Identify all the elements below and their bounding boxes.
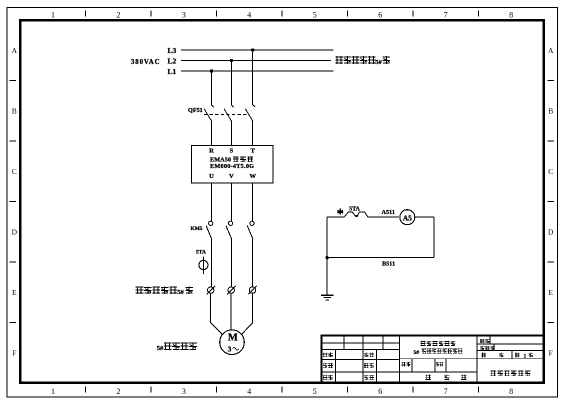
svg-text:QF51: QF51 — [188, 107, 203, 114]
svg-text:6: 6 — [378, 387, 382, 396]
net label: to original system 5# pump (top) — [336, 56, 376, 64]
svg-text:3: 3 — [228, 345, 232, 354]
top margin zone ticks — [86, 11, 479, 17]
svg-text:5: 5 — [313, 387, 317, 396]
wire left side with ground tap — [326, 217, 328, 295]
breaker linkage dashed line — [204, 113, 250, 115]
svg-text:8: 8 — [509, 387, 513, 396]
svg-text:F: F — [12, 348, 16, 357]
wire L1 phase line — [181, 70, 333, 72]
wire drop phase B to breaker — [230, 61, 232, 105]
svg-text:4: 4 — [247, 387, 251, 396]
svg-text:T: T — [251, 148, 256, 155]
svg-text:5#: 5# — [177, 289, 184, 296]
label approve row — [323, 375, 333, 380]
svg-text:6: 6 — [378, 10, 382, 19]
svg-text:1: 1 — [51, 387, 55, 396]
company name — [491, 370, 531, 375]
svg-text:5#: 5# — [157, 345, 164, 352]
net label: to original system 5# pump (bottom) — [136, 286, 177, 294]
node dot L3 tap — [251, 48, 254, 51]
svg-text:L1: L1 — [168, 67, 177, 76]
svg-text:5#: 5# — [414, 350, 420, 356]
left margin zone ticks — [10, 81, 17, 323]
CT secondary winding 5TA — [344, 212, 368, 217]
wire drop phase C to breaker — [252, 50, 254, 105]
svg-text:7: 7 — [444, 10, 448, 19]
wire ammeter to right corner — [415, 216, 434, 218]
circuit breaker QF51 — [204, 105, 255, 145]
title text line 1 — [421, 341, 456, 346]
svg-text:V: V — [229, 173, 234, 180]
bottom margin zone ticks — [86, 387, 479, 393]
motor M1 circle — [220, 330, 245, 355]
svg-text:5#: 5# — [375, 59, 382, 66]
svg-text:L2: L2 — [168, 56, 177, 65]
wire B511 bottom return — [327, 257, 434, 259]
svg-text:S: S — [230, 148, 234, 155]
polarity mark * — [337, 209, 343, 215]
svg-text:D: D — [548, 228, 554, 237]
svg-text:5: 5 — [313, 10, 317, 19]
svg-text:E: E — [12, 288, 17, 297]
junction dot ground node — [326, 256, 329, 259]
node dot L1 tap — [210, 69, 213, 72]
wire drop phase A to breaker — [211, 71, 213, 105]
title block grid — [322, 336, 544, 383]
svg-text:A: A — [548, 46, 554, 55]
svg-text:5TA: 5TA — [196, 250, 206, 256]
label scale — [480, 346, 495, 350]
svg-text:W: W — [249, 173, 256, 180]
svg-text:2: 2 — [117, 10, 121, 19]
svg-text:D: D — [12, 228, 18, 237]
svg-text:8: 8 — [509, 10, 513, 19]
ground symbol — [321, 295, 333, 300]
terminal connector pole A — [208, 287, 214, 293]
svg-text:M: M — [228, 333, 238, 344]
current transformer 5TA primary symbol — [202, 256, 204, 274]
svg-text:L3: L3 — [168, 46, 177, 55]
wire right side down — [433, 217, 435, 258]
svg-text:KM5: KM5 — [191, 226, 203, 232]
svg-text:B511: B511 — [382, 261, 395, 268]
contactor KM5 contacts — [206, 226, 253, 287]
svg-text:C: C — [548, 167, 553, 176]
wire CT secondary top left segment — [327, 216, 344, 218]
wire terminal A to motor — [211, 293, 223, 334]
wire W to contactor — [252, 183, 254, 221]
svg-text:7: 7 — [444, 387, 448, 396]
ammeter A5 — [400, 210, 415, 225]
label design row — [323, 353, 333, 358]
svg-text:B: B — [12, 107, 17, 116]
terminal connector pole B — [228, 287, 234, 293]
label sheet count — [482, 353, 487, 358]
svg-text:A511: A511 — [382, 209, 395, 216]
svg-text:U: U — [209, 173, 214, 180]
svg-text:EM000-4T5.0G: EM000-4T5.0G — [210, 163, 254, 170]
svg-text:2: 2 — [117, 387, 121, 396]
wire A511 — [368, 216, 399, 218]
svg-text:5TA: 5TA — [349, 207, 360, 213]
wire L2 phase line — [181, 60, 331, 62]
svg-text:B: B — [548, 107, 553, 116]
svg-text:R: R — [209, 148, 214, 155]
svg-text:1: 1 — [51, 10, 55, 19]
wire U to contactor — [211, 183, 213, 221]
right margin zone ticks — [548, 81, 555, 323]
svg-text:380VAC: 380VAC — [131, 59, 160, 66]
svg-text:A5: A5 — [403, 213, 412, 222]
wire V to contactor — [230, 183, 232, 221]
terminal connector pole C — [249, 287, 255, 293]
svg-text:3: 3 — [182, 387, 186, 396]
svg-text:3: 3 — [182, 10, 186, 19]
svg-text:1: 1 — [524, 353, 527, 359]
label drawing number — [480, 339, 490, 343]
date year month day — [426, 375, 431, 380]
wire terminal C to motor — [242, 293, 253, 334]
svg-text:E: E — [548, 288, 553, 297]
svg-text:A: A — [12, 46, 18, 55]
wire L3 phase line — [181, 49, 333, 51]
svg-text:F: F — [549, 348, 553, 357]
svg-text:C: C — [12, 167, 17, 176]
svg-text:4: 4 — [247, 10, 251, 19]
label check row — [323, 363, 333, 368]
label stage mark cells — [402, 362, 411, 367]
node dot L2 tap — [230, 59, 233, 62]
wire terminal B to motor — [230, 293, 232, 330]
VFD (soft starter) box U1 — [192, 146, 274, 184]
